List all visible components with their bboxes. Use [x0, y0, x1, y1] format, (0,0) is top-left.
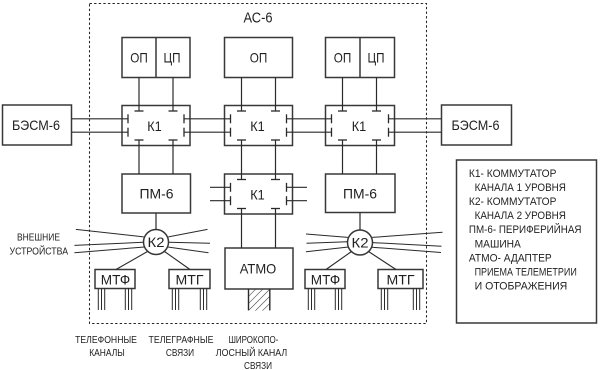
svg-text:АС-6: АС-6 — [244, 10, 273, 27]
svg-text:СВЯЗИ: СВЯЗИ — [166, 347, 194, 359]
svg-text:К1: К1 — [352, 118, 367, 134]
wire K1 block3 to BESM-6 right (lower) — [389, 131, 442, 133]
wire PM-6 left to K2 left — [155, 213, 157, 230]
legend box — [457, 160, 597, 323]
legend text — [469, 168, 582, 293]
svg-text:ШИРОКОПО-: ШИРОКОПО- — [229, 334, 279, 346]
svg-text:К2- КОММУТАТОР: К2- КОММУТАТОР — [469, 196, 557, 208]
label AC-6 — [244, 10, 273, 27]
block OP/CP column 1 — [122, 38, 190, 78]
svg-text:ПМ-6: ПМ-6 — [140, 186, 174, 202]
svg-text:СВЯЗИ: СВЯЗИ — [244, 360, 272, 370]
legs under MTG right — [381, 289, 419, 311]
block BESM-6 right — [442, 105, 512, 145]
block MTG right — [378, 270, 423, 289]
svg-text:К1: К1 — [250, 187, 265, 203]
svg-text:ТЕЛЕФОННЫЕ: ТЕЛЕФОННЫЕ — [75, 334, 137, 346]
wire BESM-6 left to K1 block1 (lower) — [72, 131, 129, 133]
block BESM-6 left — [3, 105, 72, 145]
svg-text:УСТРОЙСТВА: УСТРОЙСТВА — [10, 245, 69, 258]
commutator K1 block 2 (middle column level 1) — [225, 106, 293, 146]
svg-text:ПРИЕМА ТЕЛЕМЕТРИИ: ПРИЕМА ТЕЛЕМЕТРИИ — [475, 267, 577, 279]
wire K1 block1 to PM-6 left (right) — [172, 140, 174, 174]
label telephone channels — [75, 334, 137, 359]
svg-text:ТЕЛЕГРАФНЫЕ: ТЕЛЕГРАФНЫЕ — [149, 334, 214, 346]
hatched wideband channel stub below ATMO — [249, 289, 270, 311]
AC-6 dashed boundary box — [90, 4, 427, 324]
wire K2 left to MTG left — [165, 252, 191, 270]
commutator K1 block 4 (middle column level 2) — [225, 174, 293, 214]
block PM-6 right — [326, 174, 396, 213]
block OP column 2 — [225, 38, 293, 78]
svg-text:ЦП: ЦП — [368, 50, 385, 66]
svg-text:К1- КОММУТАТОР: К1- КОММУТАТОР — [469, 168, 557, 180]
svg-text:ОП: ОП — [250, 50, 268, 66]
svg-text:К2: К2 — [352, 235, 369, 251]
svg-text:МТГ: МТГ — [176, 272, 204, 288]
wire K1 block2 to K1 level2 (left) — [241, 140, 243, 180]
legs under MTF left — [98, 289, 131, 311]
svg-text:МТФ: МТФ — [101, 272, 131, 288]
wire PM-6 right to K2 right — [359, 213, 361, 231]
wire K1 block3 to PM-6 right (left) — [342, 140, 344, 174]
stub wires on left of K1 level 2 — [210, 187, 231, 200]
wire OP col2 to K1 block2 (left) — [241, 78, 243, 112]
commutator K1 block 3 (right column) — [326, 106, 395, 146]
fan wires left K2 to external devices (left side) — [74, 229, 144, 252]
wire K1 block1 to K1 block2 (lower) — [184, 131, 231, 133]
svg-text:КАНАЛЫ: КАНАЛЫ — [89, 347, 125, 359]
legs under MTF right — [308, 289, 341, 311]
svg-text:БЭСМ-6: БЭСМ-6 — [12, 117, 60, 133]
label external devices — [10, 232, 69, 258]
svg-text:К1: К1 — [250, 118, 265, 134]
svg-text:МТФ: МТФ — [311, 272, 341, 288]
wire K1 block2 to K1 block3 (lower) — [287, 131, 332, 133]
svg-text:АТМО- АДАПТЕР: АТМО- АДАПТЕР — [469, 252, 552, 264]
wire K2 right to MTG right — [369, 252, 397, 270]
block MTF right — [305, 270, 345, 289]
wire K1 block2 to K1 block3 (upper) — [287, 118, 332, 120]
label wideband channel — [216, 334, 287, 370]
wire K1 level2 to ATMO (right) — [275, 209, 277, 249]
svg-text:ЦП: ЦП — [164, 50, 181, 66]
stub wires on right of K1 level 2 — [287, 187, 308, 200]
svg-text:МТГ: МТГ — [387, 272, 415, 288]
block ATMO — [225, 248, 293, 289]
label telegraph links — [149, 334, 214, 359]
svg-text:И ОТОБРАЖЕНИЯ: И ОТОБРАЖЕНИЯ — [475, 281, 568, 293]
wire K2 left to MTF left — [116, 252, 148, 270]
block MTG left — [169, 270, 210, 289]
wire K1 block2 to K1 level2 (right) — [275, 140, 277, 180]
wire OP/CP col1 to K1 block1 right port — [172, 78, 174, 112]
wire OP col2 to K1 block2 (right) — [275, 78, 277, 112]
wire OP/CP col3 to K1 block3 (left) — [342, 78, 344, 112]
svg-text:МАШИНА: МАШИНА — [475, 238, 522, 250]
fan wires right K2 (right side) — [372, 232, 443, 252]
svg-text:КАНАЛА 2 УРОВНЯ: КАНАЛА 2 УРОВНЯ — [475, 210, 566, 222]
wire K2 right to MTF right — [326, 252, 352, 270]
commutator K2 circle right — [348, 230, 373, 255]
fan wires right K2 (left side) — [306, 234, 349, 252]
svg-text:КАНАЛА 1 УРОВНЯ: КАНАЛА 1 УРОВНЯ — [475, 182, 566, 194]
wire OP/CP col3 to K1 block3 (right) — [376, 78, 378, 112]
block MTF left — [95, 270, 135, 289]
wire K1 block1 to K1 block2 (upper) — [184, 118, 231, 120]
wire K1 block3 to PM-6 right (right) — [376, 140, 378, 174]
svg-text:ПМ-6- ПЕРИФЕРИЙНАЯ: ПМ-6- ПЕРИФЕРИЙНАЯ — [469, 223, 582, 236]
block OP/CP column 3 — [326, 38, 395, 78]
wire OP/CP col1 to K1 block1 left port — [138, 78, 140, 112]
wire K1 block3 to BESM-6 right (upper) — [389, 118, 442, 120]
svg-text:АТМО: АТМО — [240, 261, 277, 277]
svg-text:ЛОСНЫЙ КАНАЛ: ЛОСНЫЙ КАНАЛ — [216, 346, 287, 359]
svg-text:ВНЕШНИЕ: ВНЕШНИЕ — [17, 232, 60, 244]
fan wires left K2 (right side) — [168, 229, 210, 252]
svg-text:ОП: ОП — [130, 50, 148, 66]
svg-text:ОП: ОП — [334, 50, 352, 66]
commutator K1 block 1 (left column) — [122, 106, 190, 146]
wire BESM-6 left to K1 block1 (upper) — [72, 118, 129, 120]
svg-text:К2: К2 — [148, 234, 165, 250]
legs under MTG left — [172, 289, 206, 311]
wire K1 level2 to ATMO (left) — [241, 209, 243, 249]
svg-text:БЭСМ-6: БЭСМ-6 — [452, 117, 500, 133]
wire K1 block1 to PM-6 left (left) — [138, 140, 140, 174]
block PM-6 left — [122, 174, 191, 213]
svg-text:ПМ-6: ПМ-6 — [343, 186, 377, 202]
commutator K2 circle left — [144, 230, 169, 255]
svg-text:К1: К1 — [147, 118, 162, 134]
